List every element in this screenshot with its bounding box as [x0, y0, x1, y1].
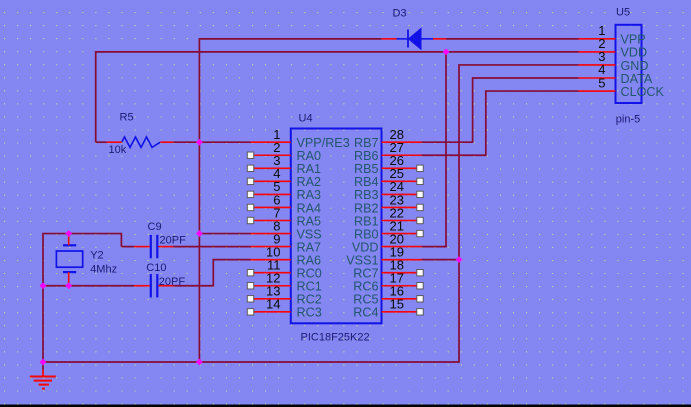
svg-text:VPP: VPP [621, 33, 646, 47]
svg-text:RA3: RA3 [297, 188, 322, 202]
svg-text:RB2: RB2 [354, 201, 379, 215]
unconnected pin marker [417, 270, 423, 276]
pin 8 (VSS) stub [251, 233, 291, 235]
svg-text:5: 5 [598, 75, 605, 90]
crystal Y2 top lead [68, 234, 70, 246]
svg-text:VPP/RE3: VPP/RE3 [297, 136, 350, 150]
pin 3 (RA1) stub [251, 167, 291, 169]
svg-text:D3: D3 [393, 8, 407, 20]
unconnected pin marker [247, 204, 253, 210]
pin 15 (RC4) stub [382, 311, 422, 313]
svg-text:RC6: RC6 [353, 280, 378, 294]
wire GND net [43, 65, 579, 362]
svg-text:CLOCK: CLOCK [621, 85, 665, 99]
resistor R5 [122, 137, 161, 147]
wire MCLR/ground vertical [199, 39, 381, 362]
pin 7 (RA5) stub [251, 220, 291, 222]
junction [65, 282, 72, 289]
svg-text:RC4: RC4 [353, 306, 378, 320]
pin 25 (RB4) stub [382, 180, 422, 182]
svg-text:VDD: VDD [621, 46, 648, 60]
unconnected pin marker [247, 165, 253, 171]
unconnected pin marker [247, 178, 253, 184]
unconnected pin marker [417, 204, 423, 210]
svg-text:RC5: RC5 [353, 293, 378, 307]
wire DATA to RB7 [422, 78, 579, 142]
wire C10 to RA6 [173, 260, 251, 286]
svg-text:RC1: RC1 [297, 280, 322, 294]
crystal Y2 bottom lead [68, 272, 70, 286]
pin 2 (RA0) stub [251, 154, 291, 156]
svg-text:RB0: RB0 [354, 227, 379, 241]
svg-text:DATA: DATA [621, 72, 653, 86]
svg-text:14: 14 [266, 297, 280, 312]
svg-text:C9: C9 [148, 221, 162, 233]
svg-text:RB4: RB4 [354, 175, 379, 189]
capacitor C10 [151, 274, 158, 297]
wire crystal frame [43, 234, 121, 363]
svg-text:RA2: RA2 [297, 175, 322, 189]
unconnected pin marker [417, 178, 423, 184]
svg-text:RB5: RB5 [354, 162, 379, 176]
junction [40, 359, 47, 366]
svg-text:R5: R5 [120, 111, 134, 123]
unconnected pin marker [417, 230, 423, 236]
junction [40, 282, 47, 289]
crystal Y2 [56, 245, 82, 272]
pin 1 (VPP/RE3) stub [251, 141, 291, 143]
svg-text:RA4: RA4 [297, 201, 322, 215]
svg-text:RB7: RB7 [354, 136, 379, 150]
resistor R5 right lead [160, 141, 173, 143]
pin 13 (RC2) stub [251, 298, 291, 300]
pin 12 (RC1) stub [251, 285, 291, 287]
junction [196, 359, 203, 366]
svg-text:C10: C10 [146, 262, 166, 274]
wire R5 to U4 pin1 [173, 141, 250, 143]
svg-text:U4: U4 [299, 113, 313, 125]
svg-text:pin-5: pin-5 [616, 113, 640, 125]
capacitor C10 left lead [134, 285, 150, 287]
pin 16 (RC5) stub [382, 298, 422, 300]
pin 22 (RB1) stub [382, 220, 422, 222]
U5 pin 2 stub [579, 51, 616, 53]
capacitor C9 [151, 235, 158, 258]
bottom border bar [0, 405, 691, 407]
capacitor C9 left lead [134, 246, 150, 248]
unconnected pin marker [247, 283, 253, 289]
U5 pin 3 stub [579, 64, 616, 66]
pin 11 (RC0) stub [251, 272, 291, 274]
wire R5 left [96, 141, 107, 143]
wire CLOCK to RB6 [422, 91, 579, 155]
ground [30, 362, 56, 389]
pin 17 (RC6) stub [382, 285, 422, 287]
pin 10 (RA6) stub [251, 259, 291, 261]
pin 24 (RB3) stub [382, 193, 422, 195]
svg-text:RB1: RB1 [354, 214, 379, 228]
unconnected pin marker [247, 270, 253, 276]
pin 18 (RC7) stub [382, 272, 422, 274]
unconnected pin marker [417, 217, 423, 223]
U5 pin 5 stub [579, 90, 616, 92]
svg-text:U5: U5 [616, 6, 630, 18]
unconnected pin marker [247, 217, 253, 223]
wire C9 to RA7 [173, 246, 251, 248]
wire C9 left [121, 246, 134, 248]
diode D3 right lead [433, 38, 446, 40]
svg-text:20PF: 20PF [159, 276, 186, 288]
unconnected pin marker [247, 152, 253, 158]
capacitor C9 right lead [158, 246, 173, 248]
junction [456, 256, 463, 263]
unconnected pin marker [417, 165, 423, 171]
pin 4 (RA2) stub [251, 180, 291, 182]
svg-text:VSS: VSS [297, 227, 322, 241]
pin 28 (RB7) stub [382, 141, 422, 143]
unconnected pin marker [417, 309, 423, 315]
diode D3 [397, 28, 434, 49]
svg-text:RA0: RA0 [297, 149, 322, 163]
wire VDD to U4 pin20 [422, 52, 447, 247]
pin 23 (RB2) stub [382, 206, 422, 208]
svg-text:VSS1: VSS1 [346, 253, 378, 267]
pin 26 (RB5) stub [382, 167, 422, 169]
U5 pin 1 stub [579, 38, 616, 40]
svg-text:RA5: RA5 [297, 214, 322, 228]
unconnected pin marker [247, 296, 253, 302]
resistor R5 left lead [107, 141, 122, 143]
svg-text:RC0: RC0 [297, 267, 322, 281]
pin 5 (RA3) stub [251, 193, 291, 195]
svg-text:RC7: RC7 [353, 267, 378, 281]
unconnected pin marker [417, 191, 423, 197]
svg-text:Y2: Y2 [90, 250, 103, 262]
svg-text:PIC18F25K22: PIC18F25K22 [301, 332, 370, 344]
svg-text:VDD: VDD [352, 240, 379, 254]
unconnected pin marker [247, 309, 253, 315]
svg-text:15: 15 [390, 297, 404, 312]
junction [443, 49, 450, 56]
junction [196, 230, 203, 237]
svg-text:20PF: 20PF [160, 235, 187, 247]
pin 27 (RB6) stub [382, 154, 422, 156]
unconnected pin marker [247, 191, 253, 197]
svg-text:10k: 10k [109, 144, 127, 156]
unconnected pin marker [417, 296, 423, 302]
pin 21 (RB0) stub [382, 233, 422, 235]
svg-text:RA7: RA7 [297, 240, 322, 254]
pin 6 (RA4) stub [251, 206, 291, 208]
pin 20 (VDD) stub [382, 246, 422, 248]
connector U5 body [616, 25, 642, 103]
wire C10 row left [43, 285, 134, 287]
svg-text:GND: GND [621, 59, 649, 73]
svg-text:RC2: RC2 [297, 293, 322, 307]
svg-text:RA1: RA1 [297, 162, 322, 176]
svg-text:4Mhz: 4Mhz [90, 264, 117, 276]
pin 9 (RA7) stub [251, 246, 291, 248]
capacitor C10 right lead [158, 285, 173, 287]
svg-text:RA6: RA6 [297, 253, 322, 267]
svg-text:RC3: RC3 [297, 306, 322, 320]
junction [196, 139, 203, 146]
svg-text:RB3: RB3 [354, 188, 379, 202]
svg-text:RB6: RB6 [354, 149, 379, 163]
diode D3 left lead [382, 38, 397, 40]
pin 19 (VSS1) stub [382, 259, 422, 261]
junction [65, 230, 72, 237]
wire VSS1 row [422, 259, 460, 261]
pin 14 (RC3) stub [251, 311, 291, 313]
wire D3 to U5 VPP [446, 38, 579, 40]
IC U4 body [291, 129, 382, 324]
unconnected pin marker [417, 283, 423, 289]
U5 pin 4 stub [579, 77, 616, 79]
wire VSS row [199, 233, 250, 235]
wire VDD pullup [96, 52, 579, 142]
